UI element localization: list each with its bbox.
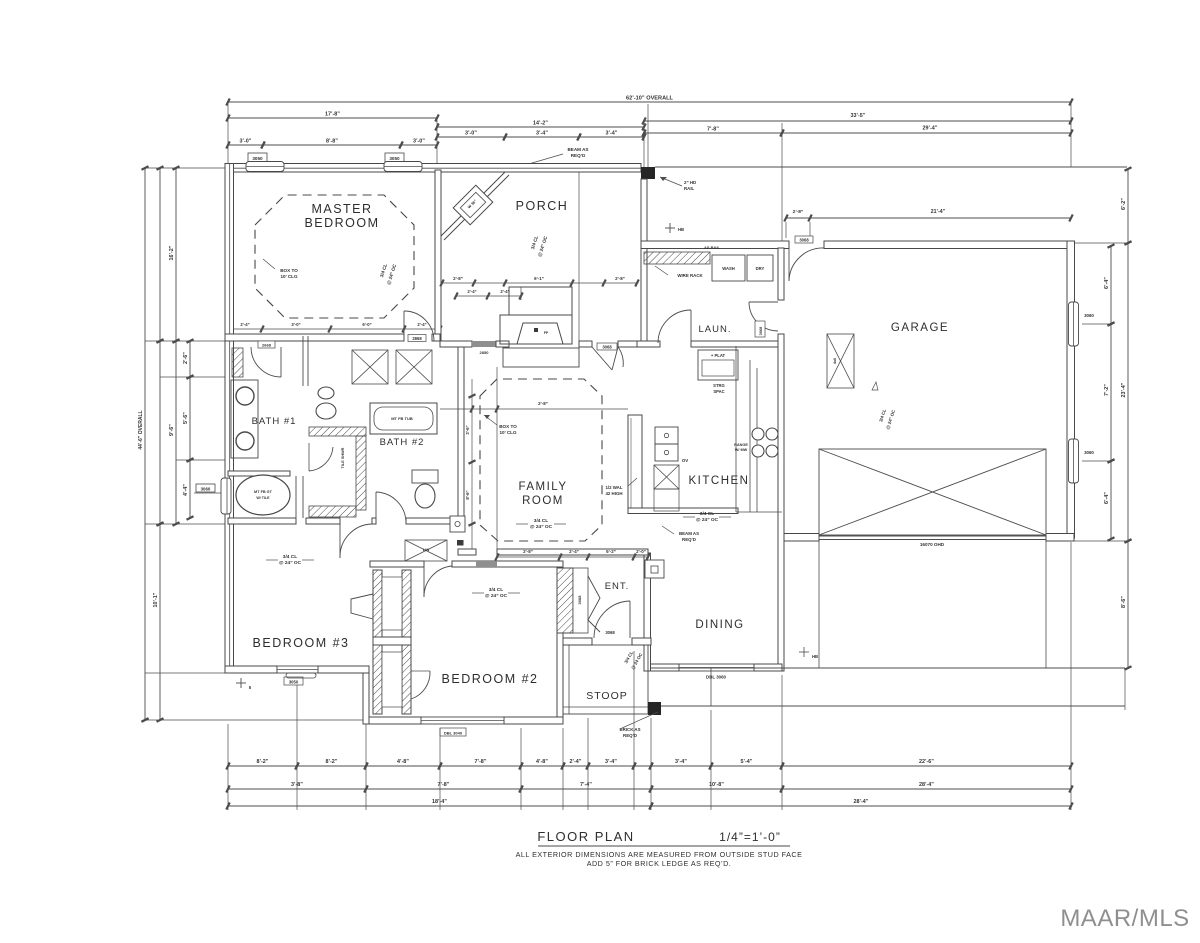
svg-text:3’-4”: 3’-4” (606, 131, 618, 137)
bed3 closet hatch right lower (402, 645, 411, 714)
bath1 vanity (231, 380, 258, 458)
dim left 44'-6 overall (144, 168, 146, 720)
tub window dim 3060 (194, 492, 231, 494)
bed3 closet hatch left band (373, 570, 382, 714)
laundry door arc (690, 310, 692, 343)
svg-text:7’-8”: 7’-8” (475, 759, 487, 765)
svg-text:LAUN.: LAUN. (699, 324, 732, 335)
svg-text:2’-4”: 2’-4” (500, 289, 509, 294)
svg-text:2’-4”: 2’-4” (569, 549, 579, 554)
stoop corner post (black) (648, 702, 661, 715)
wall garage bottom left segment (782, 534, 819, 542)
wall top (master + porch) (225, 164, 641, 173)
svg-text:3068: 3068 (758, 326, 763, 335)
svg-text:ROOM: ROOM (522, 495, 564, 507)
svg-text:33’-5”: 33’-5” (851, 113, 866, 119)
svg-text:3050: 3050 (252, 156, 263, 161)
svg-text:7’-4”: 7’-4” (580, 782, 592, 788)
svg-text:FLOOR PLAN: FLOOR PLAN (537, 829, 634, 844)
roof line right extension (655, 166, 1127, 168)
svg-text:62’-10” OVERALL: 62’-10” OVERALL (626, 96, 674, 102)
svg-text:4’-4”: 4’-4” (183, 484, 189, 496)
svg-text:2868: 2868 (412, 336, 422, 341)
bottom extension lines (227, 724, 229, 810)
porch front wall segment A (440, 341, 472, 347)
dim top laundry 7'-8" (644, 132, 782, 134)
porch-to-hall door (wedge) (592, 347, 612, 370)
svg-text:3060: 3060 (201, 487, 211, 492)
svg-text:HB: HB (812, 654, 818, 659)
svg-text:3’-4”: 3’-4” (675, 759, 687, 765)
svg-text:6’-4”: 6’-4” (1104, 277, 1110, 289)
wall hall/bed2 top (370, 561, 424, 567)
kitchen counter lines (735, 346, 737, 512)
svg-text:3/4 CL: 3/4 CL (283, 554, 297, 560)
svg-text:BEDROOM #3: BEDROOM #3 (253, 636, 350, 650)
svg-text:4’-8”: 4’-8” (397, 759, 409, 765)
svg-text:BOX TO: BOX TO (499, 424, 517, 429)
svg-text:28’-4”: 28’-4” (919, 782, 934, 788)
porch hb mark (665, 227, 675, 229)
cabinet below pantry (654, 489, 679, 511)
fireplace chimney (porch side) (509, 287, 572, 315)
svg-text:3’-0”: 3’-0” (291, 322, 300, 327)
laundry-garage door (749, 301, 778, 303)
svg-text:2’-8”: 2’-8” (523, 549, 533, 554)
window master-right in top wall (384, 162, 422, 172)
svg-text:1/4”=1’-0”: 1/4”=1’-0” (719, 830, 781, 844)
walk line lower (661, 705, 1125, 707)
wc partition (295, 476, 297, 518)
svg-text:3’-4”: 3’-4” (536, 131, 548, 137)
wall master right / porch left (435, 170, 441, 341)
niche box on dining wall (645, 560, 664, 578)
ent closet bifold door (588, 576, 600, 632)
svg-text:6’-0”: 6’-0” (362, 322, 371, 327)
svg-text:10’ CLG: 10’ CLG (499, 430, 517, 435)
porch interior dim row 2 (456, 295, 521, 297)
svg-text:2’-8”: 2’-8” (453, 276, 463, 281)
hall threshold shade (476, 561, 497, 567)
svg-text:6’-1”: 6’-1” (534, 276, 544, 281)
porch front wall segment D (618, 341, 648, 347)
svg-text:LIN: LIN (423, 547, 430, 552)
bath top dim row (228, 328, 440, 330)
stoop outline (563, 645, 648, 714)
svg-text:BEAM AS: BEAM AS (679, 531, 699, 536)
dim top master 17'-8" (228, 117, 437, 119)
svg-text:2850: 2850 (480, 350, 490, 355)
svg-text:SPAC: SPAC (713, 389, 724, 394)
driveway edge right (1045, 540, 1047, 668)
family tray ceiling dashed octagon (480, 379, 602, 541)
family niche box (450, 516, 465, 532)
svg-text:BEDROOM #2: BEDROOM #2 (442, 672, 539, 686)
svg-text:REQ’D: REQ’D (571, 153, 586, 158)
bed3 closet hatch right upper (402, 570, 411, 637)
svg-text:4x6: 4x6 (833, 358, 837, 364)
front door 3068 (629, 601, 631, 638)
svg-text:10’-1”: 10’-1” (153, 592, 159, 607)
svg-text:3’-0”: 3’-0” (413, 139, 425, 145)
svg-text:GARAGE: GARAGE (891, 322, 949, 334)
dim right outer col (1127, 169, 1129, 243)
bottom dim row 1 (228, 765, 297, 767)
master door 2868 label (408, 335, 426, 342)
svg-text:7’-2”: 7’-2” (1104, 384, 1110, 396)
svg-text:3050: 3050 (389, 156, 400, 161)
svg-text:2’-6”: 2’-6” (183, 352, 189, 364)
svg-text:28’-4”: 28’-4” (854, 799, 869, 805)
kitchen hall dims (497, 556, 648, 558)
driveway edge left (818, 540, 820, 668)
porch front wall segment C (579, 341, 592, 347)
bed3 closet door (wedge) (351, 594, 373, 619)
family horizontal dim 2-8 (440, 408, 628, 410)
dining hb mark (799, 651, 809, 653)
bed2 door arc (423, 565, 425, 597)
svg-text:W/ TILE: W/ TILE (256, 496, 270, 500)
fireplace (rotated box on diagonal) (453, 185, 493, 225)
right stub lines (1074, 242, 1128, 244)
svg-text:2’-4”: 2’-4” (240, 322, 249, 327)
shower hatch bottom (309, 506, 356, 517)
wall bed2 front (363, 717, 421, 724)
wall family left (458, 347, 464, 521)
svg-text:8’-6”: 8’-6” (465, 490, 470, 499)
garage post X column (827, 334, 854, 388)
porch vertical dim extension (578, 172, 580, 343)
svg-text:3068: 3068 (605, 630, 615, 635)
svg-text:3068: 3068 (799, 238, 809, 243)
svg-text:MT FB TUB: MT FB TUB (391, 416, 413, 421)
svg-text:7’-8”: 7’-8” (707, 127, 719, 133)
svg-text:6’-4”: 6’-4” (1104, 492, 1110, 504)
svg-text:+ PLAT: + PLAT (711, 353, 726, 358)
wic shelves X boxes (352, 350, 388, 384)
window label 3050 left (248, 153, 267, 162)
svg-text:3068: 3068 (602, 345, 612, 350)
left stub lines (145, 167, 225, 169)
wall rear house vertical (778, 248, 784, 300)
dryer box (747, 255, 773, 281)
closet divider (373, 637, 411, 645)
wall dining/stoop left (644, 553, 651, 671)
bath1 sink 1 (236, 387, 254, 405)
svg-text:MT FB GT: MT FB GT (254, 490, 273, 494)
svg-text:4’-8”: 4’-8” (536, 759, 548, 765)
svg-text:7’-8”: 7’-8” (438, 782, 450, 788)
svg-text:1/2 WAL: 1/2 WAL (605, 485, 622, 490)
svg-text:WASH: WASH (722, 266, 735, 271)
svg-text:29’-4”: 29’-4” (923, 126, 938, 132)
svg-text:HB: HB (678, 227, 684, 232)
bed3 window 3050 (277, 666, 318, 673)
wall garage right (1067, 241, 1075, 538)
ent closet hatch (557, 568, 573, 633)
garage overhead door lines (819, 535, 1046, 537)
svg-text:WIRE RACK: WIRE RACK (677, 273, 703, 278)
wall kitchen bottom (628, 508, 738, 514)
svg-text:44’-6” OVERALL: 44’-6” OVERALL (138, 410, 144, 449)
svg-text:21’-4”: 21’-4” (931, 209, 946, 215)
svg-text:TILE SHWR: TILE SHWR (341, 447, 345, 468)
svg-text:KITCHEN: KITCHEN (689, 475, 750, 487)
svg-text:ENT.: ENT. (605, 581, 630, 592)
svg-text:RANGE: RANGE (734, 443, 748, 447)
svg-text:DBL 3060: DBL 3060 (706, 675, 726, 680)
svg-text:@ 24” OC: @ 24” OC (279, 560, 302, 566)
svg-text:5’-2”: 5’-2” (606, 549, 616, 554)
garage header storage X box (819, 449, 1046, 535)
fireplace hearth (family side) (503, 348, 579, 367)
svg-text:3’-6”: 3’-6” (465, 425, 470, 434)
svg-text:STOOP: STOOP (586, 690, 628, 702)
shower hatch right (356, 436, 366, 510)
svg-text:2” HD: 2” HD (684, 180, 696, 185)
dim left bottom stub (145, 719, 369, 721)
wall dining front (644, 664, 679, 671)
svg-text:3/4 CL: 3/4 CL (700, 511, 714, 517)
svg-text:42 HIGH: 42 HIGH (605, 491, 622, 496)
garage rear door arc (788, 248, 790, 281)
window label 3050 right (385, 153, 404, 162)
svg-text:ADD 5” FOR BRICK LEDGE AS REQ’: ADD 5” FOR BRICK LEDGE AS REQ’D. (587, 859, 732, 868)
svg-text:BEDROOM: BEDROOM (304, 216, 379, 230)
dim top garage 29'-4" (782, 132, 1071, 134)
family interior dim line vertical (471, 379, 473, 549)
cooktop burners (752, 428, 764, 440)
svg-text:16070 OHD: 16070 OHD (920, 542, 945, 547)
svg-text:2’-8”: 2’-8” (793, 209, 804, 215)
dim right inner col (1110, 246, 1112, 324)
porch front window (shaded) (472, 341, 496, 347)
dim top window row porch (437, 136, 505, 138)
wall bath block bottom (228, 518, 296, 524)
corner post top-right of porch (black) (641, 167, 655, 179)
svg-text:3060: 3060 (1084, 313, 1094, 318)
svg-text:2’-4”: 2’-4” (417, 322, 426, 327)
porch corner diagonal wall (440, 172, 505, 237)
master door arc (403, 311, 405, 341)
svg-text:10’ CLG: 10’ CLG (280, 274, 298, 279)
window garden tub in left wall (221, 478, 231, 514)
svg-text:DRY: DRY (756, 266, 765, 271)
porch interior dim row (442, 282, 637, 284)
svg-text:3050: 3050 (289, 680, 299, 685)
svg-text:FP: FP (544, 331, 549, 335)
bath1 linen hatch (232, 348, 243, 377)
svg-text:PORCH: PORCH (516, 199, 569, 213)
dim left col3 16'-2 (175, 168, 177, 341)
bath1 door arc (280, 347, 282, 377)
svg-text:MASTER: MASTER (311, 202, 372, 216)
svg-text:STRG: STRG (713, 383, 725, 388)
oven/microwave stack (655, 427, 678, 444)
bed3 closet interior (382, 577, 402, 630)
wall left exterior (225, 164, 234, 674)
bath2 toilet (412, 470, 438, 483)
walk line upper (651, 667, 1125, 669)
fireplace dim extension vertical (496, 367, 498, 549)
bed2 closet door arc (411, 670, 430, 672)
garage window lower (1069, 439, 1079, 483)
svg-text:BATH #2: BATH #2 (380, 437, 425, 448)
wall bed3 front (225, 666, 277, 673)
garage window upper (1069, 302, 1079, 346)
svg-text:REQ’D: REQ’D (682, 537, 696, 542)
water heater platform (698, 350, 738, 380)
fireplace firebox outer (500, 315, 572, 344)
svg-text:2’-0”: 2’-0” (636, 549, 646, 554)
svg-text:ALL EXTERIOR DIMENSIONS ARE ME: ALL EXTERIOR DIMENSIONS ARE MEASURED FRO… (516, 850, 803, 859)
family opening jamb post (457, 540, 464, 546)
wall family bottom (458, 549, 476, 555)
svg-text:BATH #1: BATH #1 (252, 416, 297, 427)
bath1 toilet (318, 387, 334, 399)
bed2 window DBL 3040 (421, 717, 504, 724)
linen closet X (405, 540, 447, 561)
svg-text:@ 24” OC: @ 24” OC (696, 517, 719, 523)
svg-text:W/ MW: W/ MW (735, 448, 748, 452)
svg-text:5’-6”: 5’-6” (183, 412, 189, 424)
garden tub (236, 475, 290, 515)
svg-text:@ 24” OC: @ 24” OC (485, 593, 508, 599)
svg-text:8’-8”: 8’-8” (326, 139, 338, 145)
svg-text:3’-0”: 3’-0” (240, 139, 252, 145)
dim left col2 (159, 168, 161, 341)
svg-text:OV: OV (682, 458, 688, 463)
ent closet interior (573, 568, 588, 633)
svg-text:3/4 CL: 3/4 CL (534, 518, 548, 524)
svg-text:3/4 CL: 3/4 CL (489, 587, 503, 593)
svg-text:2’-4”: 2’-4” (467, 289, 476, 294)
svg-text:8’-6”: 8’-6” (1121, 596, 1127, 608)
svg-text:22’-6”: 22’-6” (919, 759, 934, 765)
svg-text:FAMILY: FAMILY (518, 481, 567, 493)
top dim extension verticals (227, 104, 229, 164)
fireplace firebox splay (517, 323, 563, 344)
svg-text:5’-4”: 5’-4” (741, 759, 753, 765)
dining window DBL 3060 (679, 664, 754, 671)
bed3 hose bib mark (236, 682, 246, 684)
bottom dim row 3 (228, 805, 651, 807)
walk divider vertical (710, 668, 712, 706)
svg-text:3’-4”: 3’-4” (605, 759, 617, 765)
laundry shelf (hatched) (644, 252, 710, 264)
svg-text:3068: 3068 (577, 595, 582, 605)
kitchen bar half wall (628, 415, 642, 513)
svg-text:2668: 2668 (262, 343, 272, 348)
shower door arc (308, 443, 310, 471)
svg-text:14’-2”: 14’-2” (533, 121, 548, 127)
wall master bottom / bath top (225, 334, 404, 341)
svg-text:2’-8”: 2’-8” (538, 401, 548, 406)
dim left bath col (189, 341, 191, 377)
bath2 door arc (375, 492, 377, 524)
hall-bed3 door arc (339, 524, 341, 558)
wall rear top (laundry+garage) (641, 241, 789, 249)
svg-text:2’-8”: 2’-8” (615, 276, 625, 281)
dim top porch 14'-2" (437, 126, 644, 128)
bath1 interior wall stub (302, 336, 304, 386)
svg-text:2’-4”: 2’-4” (570, 759, 582, 765)
wall porch right (641, 179, 647, 341)
svg-text:DBL 3040: DBL 3040 (444, 731, 463, 736)
svg-text:AS RAIL: AS RAIL (704, 245, 721, 250)
bath1 sink 2 (236, 432, 254, 450)
pantry X cabinet (654, 465, 679, 489)
wall bed3 step vertical (363, 666, 369, 724)
svg-text:9’-6”: 9’-6” (169, 424, 175, 436)
washer box (712, 255, 745, 281)
shower hatch top (309, 427, 366, 436)
dim top rear 33'-5" (644, 120, 1071, 122)
svg-text:23’-4”: 23’-4” (1121, 382, 1127, 397)
title underline (538, 845, 790, 847)
wall ent front (563, 638, 592, 645)
svg-text:3060: 3060 (1084, 450, 1094, 455)
window master-left in top wall (246, 162, 284, 172)
svg-text:RAIL: RAIL (684, 186, 695, 191)
porch front wall segment B (496, 341, 509, 347)
wall bed2 right / ent left lower (557, 633, 563, 724)
master tray ceiling dashed octagon (255, 195, 414, 318)
garage interior dim 21'-4 (786, 217, 1071, 219)
svg-text:17’-8”: 17’-8” (325, 112, 340, 118)
svg-text:8’-2”: 8’-2” (326, 759, 338, 765)
svg-text:BOX TO: BOX TO (280, 268, 298, 273)
svg-text:DINING: DINING (695, 619, 744, 631)
wall garage bottom right segment (1046, 534, 1074, 542)
svg-text:MAAR/MLS: MAAR/MLS (1060, 905, 1189, 932)
svg-text:@ 24” OC: @ 24” OC (530, 524, 553, 530)
svg-text:8’-2”: 8’-2” (257, 759, 269, 765)
svg-text:BEAM AS: BEAM AS (567, 147, 588, 152)
bed2 closet interior (382, 652, 402, 707)
svg-text:REQ’D: REQ’D (623, 733, 637, 738)
svg-text:3’-0”: 3’-0” (465, 131, 477, 137)
svg-text:16’-2”: 16’-2” (169, 245, 175, 260)
bath2 tub (370, 403, 437, 434)
wall laundry bottom / kitchen top (637, 341, 660, 347)
dim top overall 62'-10" (228, 101, 1071, 103)
bottom dim row 2 (228, 788, 366, 790)
garden tub nook wall (228, 471, 290, 476)
svg-text:6’-2”: 6’-2” (1121, 198, 1127, 210)
dim top window row master (228, 144, 263, 146)
